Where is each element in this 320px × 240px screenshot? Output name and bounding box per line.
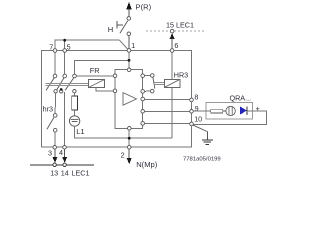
terminal 10 <box>190 122 194 126</box>
svg-text:FR: FR <box>90 66 100 75</box>
terminal 1 <box>127 49 131 53</box>
svg-text:L1: L1 <box>76 127 84 136</box>
contact A bottom <box>54 90 57 93</box>
terminal 2 <box>127 145 131 149</box>
switch H top contact <box>127 17 131 21</box>
inner box pin bottom <box>128 127 132 131</box>
arrow to 15 <box>170 33 175 39</box>
linkage bar HR3 <box>154 83 164 85</box>
terminal 4 <box>63 146 67 150</box>
svg-text:H: H <box>108 25 113 34</box>
svg-text:13: 13 <box>50 168 58 177</box>
contact C bottom <box>73 90 76 93</box>
ground wire <box>193 125 207 139</box>
wire terminal 9 to QRA <box>193 110 211 112</box>
svg-text:14: 14 <box>61 168 69 177</box>
external line LEC1 <box>30 164 94 166</box>
junction on wire 2 <box>128 137 131 140</box>
terminal 8 <box>190 98 194 102</box>
junction at B bottom <box>60 88 63 91</box>
wire A bottom to hr3 <box>54 93 56 114</box>
wire inner box bottom to terminal 2 <box>128 130 130 145</box>
wire terminal 6 to HR3 <box>171 52 173 79</box>
flame detector QRA box <box>206 103 253 119</box>
svg-text:4: 4 <box>59 148 63 157</box>
outer box (device boundary) <box>41 51 191 148</box>
wire HR3 down to bottom net <box>171 87 173 138</box>
QRA return wire to terminal 10 <box>193 111 266 125</box>
QRA wire <box>223 110 226 112</box>
QRA diode (blue) <box>240 106 247 115</box>
wire term1 to inner box, branch to contact C <box>75 52 130 74</box>
arm contact B <box>57 78 64 90</box>
switch H bottom contact <box>127 32 131 36</box>
node 13 <box>53 163 56 166</box>
contact hr top pair wire <box>145 75 151 77</box>
wire arrow to terminal 6 <box>171 39 173 49</box>
wire pin to terminal 10 <box>145 123 190 125</box>
dashed net 15 <box>146 30 206 32</box>
wire terminal 3 to arrow <box>54 149 56 158</box>
arm right contact <box>153 77 155 88</box>
wire lamp down and across <box>75 126 173 138</box>
contact fr-C top <box>73 74 77 78</box>
node 14 <box>63 163 66 166</box>
svg-text:QRA...: QRA... <box>230 94 252 103</box>
op-amp triangle <box>123 93 137 106</box>
P(R) arrow <box>126 2 132 17</box>
wire contact C to inner box <box>76 75 113 77</box>
lamp L1 <box>69 116 79 126</box>
wire terminal 2 to arrow <box>128 149 130 159</box>
wire term7 down <box>54 52 56 74</box>
svg-text:hr3: hr3 <box>43 105 53 114</box>
svg-text:N(Mp): N(Mp) <box>136 160 158 169</box>
terminal 7 <box>53 49 57 53</box>
wire C bottom to resistor <box>73 93 75 96</box>
wire pin to terminal 8 <box>145 99 190 101</box>
resistor <box>72 96 78 110</box>
ground symbol <box>202 140 213 145</box>
svg-text:15 LEC1: 15 LEC1 <box>166 21 194 30</box>
diode bar <box>246 106 248 115</box>
contact hr3 bottom <box>53 128 57 132</box>
inner box pins right <box>141 74 145 78</box>
wire hr3 to terminal 3 <box>54 132 56 145</box>
contact hr3 top <box>53 114 57 118</box>
svg-text:8: 8 <box>194 93 198 102</box>
terminal 6 <box>170 49 174 53</box>
terminal 9 <box>190 110 194 114</box>
terminal 5 <box>63 49 67 53</box>
wire pin to terminal 9 <box>145 110 190 112</box>
wire FR coil to inner box <box>96 88 113 91</box>
svg-text:10: 10 <box>194 115 202 124</box>
svg-text:P(R): P(R) <box>136 3 152 12</box>
arrow N(Mp) <box>127 158 132 164</box>
arm contact C <box>65 78 73 90</box>
switch H arm <box>120 21 128 34</box>
inner box pin top <box>127 68 131 72</box>
junction on term1 stem <box>128 59 131 62</box>
inner box pin left top <box>113 74 117 78</box>
contact B bottom <box>60 90 63 93</box>
wire terminal 4 to arrow <box>64 149 66 158</box>
svg-text:3: 3 <box>48 149 52 158</box>
arm contact A <box>46 78 54 90</box>
svg-text:7781a05/0199: 7781a05/0199 <box>183 157 221 163</box>
linkage bar FR <box>46 84 89 86</box>
svg-text:6: 6 <box>174 41 178 50</box>
inner box pin left bottom <box>113 89 117 93</box>
arrow 13 <box>53 157 58 163</box>
inner box (electronics unit) <box>115 70 143 129</box>
contact fr-B top <box>63 74 67 78</box>
svg-text:5: 5 <box>67 42 71 51</box>
node 15 <box>170 29 174 33</box>
wire term5 down <box>64 52 66 74</box>
wire to terminal 4 <box>63 92 65 145</box>
arm hr3 <box>47 118 54 130</box>
contact hr bottom pair wire <box>145 90 151 92</box>
svg-text:+: + <box>256 104 260 113</box>
svg-text:HR3: HR3 <box>174 70 188 79</box>
QRA resistor <box>211 109 223 113</box>
svg-text:7: 7 <box>49 42 53 51</box>
switch H actuator <box>117 21 123 29</box>
svg-text:2: 2 <box>121 150 125 159</box>
terminal 3 <box>53 146 57 150</box>
link wire term7-5-1 <box>55 40 128 49</box>
relay coil HR3 <box>165 79 181 87</box>
wire resistor to lamp <box>74 110 76 116</box>
svg-text:1: 1 <box>131 41 135 50</box>
svg-text:LEC1: LEC1 <box>72 168 90 177</box>
arrow 14 <box>62 157 67 163</box>
wire H to terminal 1 <box>128 36 130 49</box>
junction above 5 <box>63 39 66 42</box>
QRA photocell <box>226 106 235 115</box>
relay coil FR <box>89 80 105 88</box>
contact fr-A top <box>53 74 57 78</box>
